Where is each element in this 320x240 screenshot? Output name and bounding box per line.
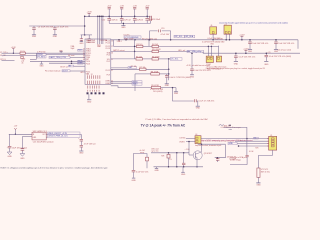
label GND_TV <box>228 142 237 145</box>
svg-text:C13: C13 <box>140 19 143 21</box>
svg-text:P0.12: P0.12 <box>106 70 110 72</box>
wire P0.2 net <box>111 58 136 60</box>
power +3.3V W5 <box>243 49 249 54</box>
wire P0.11 net <box>111 68 140 70</box>
svg-text:R4 1k5: R4 1k5 <box>152 44 158 46</box>
wire pu top <box>134 154 148 171</box>
wire to J4 pin1 <box>186 137 195 139</box>
wire P0.3 net <box>111 50 190 52</box>
ground C25 <box>274 50 279 53</box>
value label C11 <box>114 19 128 21</box>
svg-text:I2C_SCL: I2C_SCL <box>171 59 179 61</box>
svg-text:I2C_SDA_pullup: I2C_SDA_pullup <box>188 50 202 53</box>
svg-text:22: 22 <box>83 51 85 53</box>
comment bottom rule <box>1 166 109 169</box>
wire P0.6 net <box>111 86 152 88</box>
svg-text:GPIO: GPIO <box>80 72 85 74</box>
power +5V <box>14 125 18 135</box>
resistor R10 <box>146 157 149 161</box>
mcu left pin names <box>86 48 92 76</box>
ground C32 <box>20 154 25 160</box>
regulator VR2 name <box>33 131 47 133</box>
wire emitter <box>196 160 198 168</box>
wire vr out 2 <box>46 136 47 138</box>
junction dots W1 <box>118 39 171 41</box>
svg-text:GND_net: GND_net <box>223 124 231 127</box>
label VOUT2 <box>48 135 81 138</box>
ground C34 <box>79 151 84 154</box>
svg-text:0.1uF 25V X7R ±5% (0603): 0.1uF 25V X7R ±5% (0603) <box>269 56 291 58</box>
label LINE1 <box>132 81 142 84</box>
value label C25 <box>278 43 294 45</box>
svg-text:dn: dn <box>22 63 24 65</box>
svg-text:GND: GND <box>264 64 269 66</box>
wire BOOT2 <box>70 70 85 72</box>
svg-text:UART_TXD0_FTDI: UART_TXD0_FTDI <box>50 56 67 59</box>
svg-text:18pF: 18pF <box>71 48 75 50</box>
label row5 <box>78 60 84 62</box>
wire P0.9 net <box>135 73 151 75</box>
wire crystal pin1 <box>225 34 227 40</box>
connector J4 name <box>195 134 197 136</box>
label SDA2 <box>187 50 204 53</box>
svg-text:GND: GND <box>32 36 37 38</box>
svg-text:GND: GND <box>7 156 12 158</box>
svg-text:ISP_SCL: ISP_SCL <box>175 36 183 38</box>
wire r4 right <box>159 58 171 60</box>
svg-text:ISP_SDA: ISP_SDA <box>185 35 194 38</box>
svg-text:31: 31 <box>111 59 113 61</box>
svg-text:0.1uF 25V X7R ±5%: 0.1uF 25V X7R ±5% <box>239 57 256 59</box>
wire lower tv net <box>151 152 189 154</box>
svg-text:ISP auto: ISP auto <box>68 54 75 57</box>
comment r2 rows <box>22 58 26 64</box>
svg-text:10uF 10V X5R ±5%: 10uF 10V X5R ±5% <box>278 43 294 45</box>
net flag row1 <box>0 51 8 54</box>
wire r4 mid <box>143 58 153 60</box>
svg-text:RULE #1: all bypass and decoup: RULE #1: all bypass and decoupling caps … <box>1 166 109 169</box>
wire r2 right <box>159 46 219 48</box>
svg-text:GND: GND <box>181 174 186 176</box>
svg-text:20% (0603): 20% (0603) <box>153 91 163 93</box>
wire r5 right <box>146 68 169 70</box>
wire mid drop <box>176 153 178 167</box>
jumper JP1 <box>206 56 213 62</box>
power +3.3V main <box>86 12 92 17</box>
label row6 <box>78 62 84 64</box>
svg-text:R13 330R: R13 330R <box>152 49 161 51</box>
svg-text:sync mix: sync mix <box>151 151 158 153</box>
wire bus VDDA <box>99 16 101 44</box>
svg-text:GND: GND <box>131 180 136 182</box>
wire BOOT <box>74 65 85 67</box>
ground rail stub <box>154 167 159 172</box>
mcu right pin numbers <box>111 40 113 85</box>
svg-text:VR2 LM1117-3.3: VR2 LM1117-3.3 <box>33 131 47 133</box>
resistor R6 <box>152 57 160 61</box>
label RXD0 <box>37 54 46 57</box>
svg-text:CSYNC: CSYNC <box>179 138 186 140</box>
svg-text:R3 1k5: R3 1k5 <box>136 44 142 46</box>
wire vertical right mid <box>168 59 170 80</box>
label J4 in 1 <box>179 138 186 140</box>
capacitor C12 <box>133 16 137 24</box>
comment tv 1 <box>202 140 245 143</box>
value label C38 <box>249 151 254 153</box>
resistor R5 <box>136 57 143 61</box>
svg-text:C5 10uF ±5%: C5 10uF ±5% <box>57 26 69 28</box>
value label R11 <box>161 155 172 160</box>
wire crystal pin2 <box>229 34 231 40</box>
connector J5 name <box>270 135 272 137</box>
mcu bottom pin rows <box>87 74 100 84</box>
comment between headers <box>215 39 224 41</box>
ground mcu pads <box>87 94 91 100</box>
svg-text:GND: GND <box>40 65 45 67</box>
capacitor C30b <box>195 99 198 106</box>
label RST top <box>78 49 84 51</box>
jumper labels 2 <box>206 67 266 70</box>
svg-text:GND: GND <box>79 43 84 45</box>
value label C26 <box>239 57 256 59</box>
comment tv 2 <box>195 144 221 147</box>
value label C22 <box>194 70 211 72</box>
svg-text:GND: GND <box>165 85 170 87</box>
svg-text:13: 13 <box>111 40 113 42</box>
svg-text:0.1uF 4.7 X5R 20% (0603): 0.1uF 4.7 X5R 20% (0603) <box>169 77 191 79</box>
ground C27 <box>264 61 269 65</box>
capacitor C23 <box>248 39 252 49</box>
wire jumper feed 3 <box>218 46 220 57</box>
svg-text:+ C40: + C40 <box>185 149 190 151</box>
value label C13 <box>140 19 154 21</box>
svg-text:C18 10uF: C18 10uF <box>152 19 161 21</box>
wire r2 feed <box>114 40 137 47</box>
ground C1 <box>32 35 37 38</box>
comment boot row <box>45 69 61 72</box>
wire j5 jog <box>224 127 247 138</box>
svg-text:4.7uF 10V: 4.7uF 10V <box>161 34 170 36</box>
mcu left pin numbers <box>83 49 85 62</box>
regulator VR2 <box>32 132 46 140</box>
capacitor C19 loop <box>150 28 171 40</box>
svg-text:Leave this header again before: Leave this header again before you put i… <box>219 22 288 25</box>
svg-text:C10: C10 <box>102 19 105 21</box>
net names bus <box>97 44 101 48</box>
wire P0.8 net <box>111 81 132 83</box>
comment row7 <box>60 66 68 68</box>
resistor R7 <box>140 67 147 71</box>
svg-text:33: 33 <box>83 57 85 59</box>
svg-text:25: 25 <box>83 53 85 55</box>
magenta text row 1 <box>202 139 253 142</box>
wire W1 main net <box>111 40 298 43</box>
comment big text <box>141 124 186 128</box>
svg-text:P0.19: P0.19 <box>106 48 110 50</box>
svg-text:26: 26 <box>83 55 85 57</box>
svg-text:XTAL_18pF: XTAL_18pF <box>124 37 134 40</box>
svg-text:0.1uF/25V/X7R (0603) GND: 0.1uF/25V/X7R (0603) GND <box>202 42 225 44</box>
capacitor C25 <box>274 39 278 49</box>
svg-text:R7 10k: R7 10k <box>131 66 137 68</box>
comment xtal texts <box>71 45 75 50</box>
capacitor C3 <box>80 35 83 42</box>
resistor R9 <box>151 85 160 89</box>
svg-text:+ C9: + C9 <box>267 52 271 54</box>
ground stub left <box>59 50 64 53</box>
wire out right <box>80 135 81 140</box>
capacitor C2 <box>53 26 57 35</box>
capacitor C35 <box>132 170 136 177</box>
ground C6 <box>87 42 91 44</box>
comment video out <box>230 156 247 162</box>
svg-text:C11: C11 <box>114 19 117 21</box>
resistor R3 <box>136 44 143 48</box>
label LINE2 <box>132 83 142 86</box>
svg-text:FT_RTS: FT_RTS <box>38 56 46 58</box>
crystal Q1 <box>224 25 231 34</box>
svg-text:VIDEO: VIDEO <box>179 142 185 144</box>
wire bus VREF <box>100 16 102 44</box>
capacitor C22 <box>190 52 194 74</box>
svg-text:GND: GND <box>229 143 234 145</box>
svg-text:P0.14 boot mode pin: P0.14 boot mode pin <box>45 69 61 72</box>
svg-text:R9 470R: R9 470R <box>151 85 159 87</box>
ground VT1 <box>256 183 261 187</box>
mcu right pin names <box>105 40 111 85</box>
svg-text:10uF 16V tantalum: 10uF 16V tantalum <box>12 146 28 149</box>
wire j5 net3 <box>237 143 269 145</box>
capacitor C13 <box>145 16 149 24</box>
svg-text:P0.3: P0.3 <box>107 54 111 56</box>
svg-text:P0.22: P0.22 <box>106 42 110 44</box>
comment 75R <box>255 147 259 149</box>
value label C27 <box>269 56 291 58</box>
resistor R11 <box>167 153 170 167</box>
svg-text:LM1117_PWR_all_nets: LM1117_PWR_all_nets <box>48 135 68 138</box>
svg-text:P0.23: P0.23 <box>86 63 90 65</box>
capacitor C27 <box>265 52 269 61</box>
value label C23 <box>252 43 268 45</box>
wire jumper feed 1 <box>207 46 209 56</box>
svg-text:10uF 10V X5R ±5%: 10uF 10V X5R ±5% <box>252 43 268 45</box>
svg-text:U1 LPC: U1 LPC <box>123 35 130 37</box>
capacitor C37 <box>216 159 219 162</box>
label net PU <box>140 150 145 154</box>
power +3.3V C12 <box>133 6 138 8</box>
svg-text:DTR: DTR <box>78 63 83 65</box>
connector J6 <box>210 27 217 34</box>
svg-text:4.7uF 16V tant: 4.7uF 16V tant <box>84 143 96 146</box>
wire RTS down <box>30 53 37 59</box>
label TXD0 <box>49 56 70 59</box>
label RTS <box>37 56 46 59</box>
connector pins below mcu <box>88 86 99 92</box>
wire RXD0 out <box>46 54 85 56</box>
ground C26 <box>234 62 239 66</box>
regulator VR2 value <box>33 140 54 143</box>
svg-text:GND: GND <box>121 27 126 29</box>
wire RESET net <box>2 52 86 54</box>
capacitor C8 <box>146 7 149 18</box>
connector J6 name <box>210 25 212 27</box>
svg-text:Leave with solder sugar before: Leave with solder sugar before you plug … <box>206 67 266 70</box>
svg-text:R1 1k: R1 1k <box>20 51 25 53</box>
svg-text:GND: GND <box>87 102 92 104</box>
wire P0.7 net <box>111 82 132 84</box>
label mid <box>254 137 259 139</box>
ground C23 <box>248 50 253 53</box>
comment LED <box>151 149 158 153</box>
capacitor C11 <box>120 16 124 24</box>
connector J4 <box>195 136 201 144</box>
value label VT1 <box>261 169 271 174</box>
svg-text:0.1uF X7R: 0.1uF X7R <box>215 39 224 41</box>
wire collector bend <box>215 144 226 158</box>
ground C3 <box>79 42 84 45</box>
svg-text:GND: GND <box>234 64 239 66</box>
svg-text:GND: GND <box>20 158 25 160</box>
mcu GPIO label left <box>80 72 85 74</box>
wire vr gnd <box>22 137 32 149</box>
svg-text:0.1uF 4.7 X5R 20%: 0.1uF 4.7 X5R 20% <box>199 101 215 103</box>
svg-text:BOOT sel: BOOT sel <box>60 66 68 68</box>
capacitor C20 <box>165 74 169 84</box>
wire emitter rail <box>154 166 204 168</box>
value label C21 <box>150 89 163 93</box>
svg-text:75: 75 <box>254 137 256 139</box>
mcu top interior labels <box>86 39 108 44</box>
comment note right <box>221 126 241 131</box>
ground C20 <box>165 84 170 87</box>
value label C35 <box>136 172 149 174</box>
wire collector net <box>198 143 225 145</box>
svg-text:GND: GND <box>256 185 261 187</box>
svg-text:R8 470R: R8 470R <box>151 72 159 74</box>
svg-text:to FTDI hdr: to FTDI hdr <box>37 51 46 54</box>
svg-text:BOOT: BOOT <box>63 70 69 72</box>
resistor R13 <box>152 49 161 53</box>
capacitor C31 <box>7 134 12 152</box>
power +3.3V C10 <box>107 6 112 8</box>
svg-text:GND: GND <box>79 152 84 154</box>
label BOOT <box>68 65 73 67</box>
label P0.12 <box>128 67 137 69</box>
wire vr out <box>46 133 47 135</box>
ground stub x176 <box>174 88 179 95</box>
svg-text:not all vias noted: not all vias noted <box>278 49 292 52</box>
svg-text:GND: GND <box>196 108 201 110</box>
comment dac line <box>146 118 209 121</box>
resistor R8 <box>151 72 160 76</box>
capacitor C38 <box>246 139 249 165</box>
wire jumper feed 2 <box>210 46 212 56</box>
svg-text:(CVBS 1Vpp): (CVBS 1Vpp) <box>230 160 241 162</box>
svg-text:GND: GND <box>53 36 58 38</box>
wire to J4 pin2 <box>186 141 195 143</box>
wire base <box>188 141 193 155</box>
svg-text:26: 26 <box>111 52 113 54</box>
ground C22 <box>190 75 195 79</box>
svg-text:17: 17 <box>111 46 113 48</box>
ground label small <box>87 102 92 104</box>
svg-text:+3.3V_sel adds line net ranges: +3.3V_sel adds line net ranges <box>186 64 210 67</box>
net flag row2 <box>0 55 6 57</box>
comment MAT pin <box>113 49 125 52</box>
wire row5 <box>30 61 85 63</box>
capacitor C33 <box>78 138 83 145</box>
capacitor C18 <box>150 16 152 24</box>
value label C30b <box>199 101 215 103</box>
wire +3.3V rail left <box>29 25 84 27</box>
label SCL <box>174 35 184 38</box>
svg-text:0.1uF 25V X7R ±5%: 0.1uF 25V X7R ±5% <box>194 70 211 72</box>
wire W5 rail <box>203 52 300 54</box>
jumper labels <box>206 64 226 70</box>
value label C37 <box>227 156 237 160</box>
svg-text:R6 470R: R6 470R <box>152 57 160 59</box>
svg-text:GND: GND <box>248 51 253 53</box>
svg-text:DTR_E: DTR_E <box>0 59 6 61</box>
comment j5 top <box>223 124 231 127</box>
wire r6 right <box>159 73 168 75</box>
svg-text:GND: GND <box>154 170 159 172</box>
ground cap bank <box>121 23 126 29</box>
svg-text:C25 100uF/16V tantalum: C25 100uF/16V tantalum <box>33 140 54 143</box>
value label C18 <box>152 19 161 21</box>
ground C30b <box>196 106 201 109</box>
svg-text:GND: GND <box>174 93 179 95</box>
svg-text:C12: C12 <box>127 19 130 21</box>
capacitor C6 <box>120 7 123 18</box>
squiggle mark <box>219 124 231 126</box>
wire j5 net4 <box>238 145 269 147</box>
svg-text:this is NTSC composite: sync +: this is NTSC composite: sync + luma mixe… <box>202 139 253 142</box>
svg-text:35R @ 25C: 35R @ 25C <box>261 172 271 174</box>
capacitor C6 <box>88 35 91 40</box>
comment pair text <box>131 66 137 68</box>
wire video out <box>230 164 247 166</box>
svg-text:37: 37 <box>111 70 113 72</box>
svg-text:GND: GND <box>190 76 195 78</box>
wire r8 right <box>161 87 176 89</box>
transistor Q2 name <box>204 153 212 155</box>
comment sel text <box>186 64 210 67</box>
svg-text:P0.2: P0.2 <box>107 61 111 63</box>
svg-text:VREF VBAT: VREF VBAT <box>86 41 95 44</box>
mcu U1 name label <box>123 35 141 39</box>
power +3.3V C13 <box>145 6 150 8</box>
wire bus VDD <box>97 16 99 44</box>
svg-text:34: 34 <box>83 59 85 61</box>
connector pads below mcu <box>87 92 105 94</box>
capacitor C32 <box>21 149 25 154</box>
svg-text:TV @ 1A peak +/- 7% from AC: TV @ 1A peak +/- 7% from AC <box>141 124 186 128</box>
value label C31 <box>12 146 28 149</box>
wire W5 jog <box>202 52 204 54</box>
value labels C1 C2 <box>38 26 69 28</box>
wire cap bank bottom rail <box>109 22 150 24</box>
svg-text:R5 1k5: R5 1k5 <box>136 57 142 59</box>
comment mid texts <box>68 54 75 57</box>
svg-text:PI xtal @ 10 MHz, 3 ms time li: PI xtal @ 10 MHz, 3 ms time limits not e… <box>146 118 209 121</box>
wire J4 out <box>201 138 269 140</box>
svg-text:MISO: MISO <box>133 84 138 86</box>
label SCL2 <box>170 58 182 61</box>
svg-text:LINE2: LINE2 <box>105 83 110 85</box>
value label C36 <box>185 149 190 151</box>
svg-text:21: 21 <box>83 49 85 51</box>
